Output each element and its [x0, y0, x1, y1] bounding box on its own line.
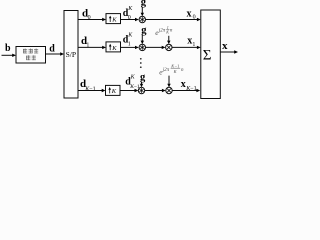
svg-text:g: g [140, 72, 146, 83]
node dK-1 label [80, 78, 96, 92]
node b input label [5, 43, 11, 54]
svg-text:j2π: j2π [158, 29, 166, 34]
node d0 label [82, 8, 91, 21]
svg-text:1: 1 [128, 41, 131, 47]
wire g down into conv circle row2 [141, 35, 144, 44]
node x output label [222, 40, 228, 52]
exponential label row3: e^{j2pi((K-1)/K)n} [159, 64, 184, 77]
svg-text:S/P: S/P [66, 50, 76, 59]
wire sum to output, labelled x [220, 50, 238, 53]
conv circle row3 [138, 87, 144, 93]
wire conv row2 to mult circle row2 [146, 46, 166, 49]
node d0^K label [123, 6, 134, 21]
wire upsampler row3 to conv circle [120, 89, 138, 92]
svg-text:g: g [141, 25, 147, 36]
filter g label row2 [141, 25, 147, 36]
mapping block text line 2 (CJK glyph marks) [26, 55, 36, 60]
node x0 label [187, 8, 196, 20]
upsampler K row3 [106, 85, 121, 95]
svg-text:−1: −1 [190, 86, 196, 92]
wire b to mapping block [2, 54, 17, 57]
svg-text:0: 0 [193, 15, 196, 21]
wire S/P to upsampler row1 [78, 18, 106, 21]
upsampler K row1 [106, 14, 121, 24]
S/P block [64, 11, 78, 99]
node d1^K label [123, 33, 134, 48]
svg-text:x: x [222, 40, 228, 52]
svg-text:b: b [5, 43, 11, 54]
svg-text:d: d [49, 43, 55, 54]
wire mult row3 to sum block, labelled xK-1 [172, 89, 200, 92]
wire g down into conv circle row3 [140, 82, 143, 87]
wire mult row2 to sum block, labelled x1 [172, 46, 201, 49]
wire exp down into mult circle row3 [167, 76, 170, 88]
node d1 label [81, 35, 89, 48]
svg-text:K: K [111, 88, 117, 95]
wire exp down into mult circle row2 [167, 36, 170, 44]
node d label [49, 43, 55, 54]
svg-text:x: x [181, 79, 186, 90]
wire upsampler row2 to conv circle [121, 46, 139, 49]
conv circle row2 [139, 44, 145, 50]
conv circle row1 [139, 16, 145, 22]
wire upsampler row1 to conv circle [121, 18, 139, 21]
svg-text:K: K [111, 17, 117, 24]
svg-text:1: 1 [192, 42, 195, 48]
filter g label row1 [141, 0, 147, 8]
filter g label row3 [140, 72, 146, 83]
upsampler K row2 [106, 42, 121, 52]
mult circle row2 [166, 44, 172, 50]
mult circle row3 [166, 87, 172, 93]
exponential label row2: e^{j2pi(1/K)n} [155, 25, 173, 37]
mapping block (constellation mapping) [16, 47, 46, 64]
wire mapping block to S/P [46, 52, 65, 55]
svg-text:K: K [111, 45, 117, 52]
mapping block text line 1 (CJK glyph marks) [23, 49, 38, 54]
node x1 label [187, 36, 195, 48]
wire g down into conv circle row1 [141, 7, 144, 16]
svg-text:−1: −1 [89, 86, 95, 92]
wire S/P to upsampler row3 [78, 89, 106, 92]
node xK-1 label [181, 79, 197, 92]
svg-text:x: x [187, 8, 192, 19]
wire conv row1 to sum block, labelled x0 [146, 18, 201, 21]
vertical dots between row2 and row3 [140, 58, 142, 68]
wire conv row3 to mult circle row3 [145, 89, 166, 92]
svg-text:K: K [165, 30, 169, 35]
svg-text:g: g [141, 0, 147, 8]
svg-text:Σ: Σ [203, 47, 212, 63]
svg-text:j2π: j2π [162, 68, 170, 73]
summation block [201, 10, 221, 99]
node dK-1^K label [125, 75, 140, 90]
wire S/P to upsampler row2 [78, 46, 106, 49]
